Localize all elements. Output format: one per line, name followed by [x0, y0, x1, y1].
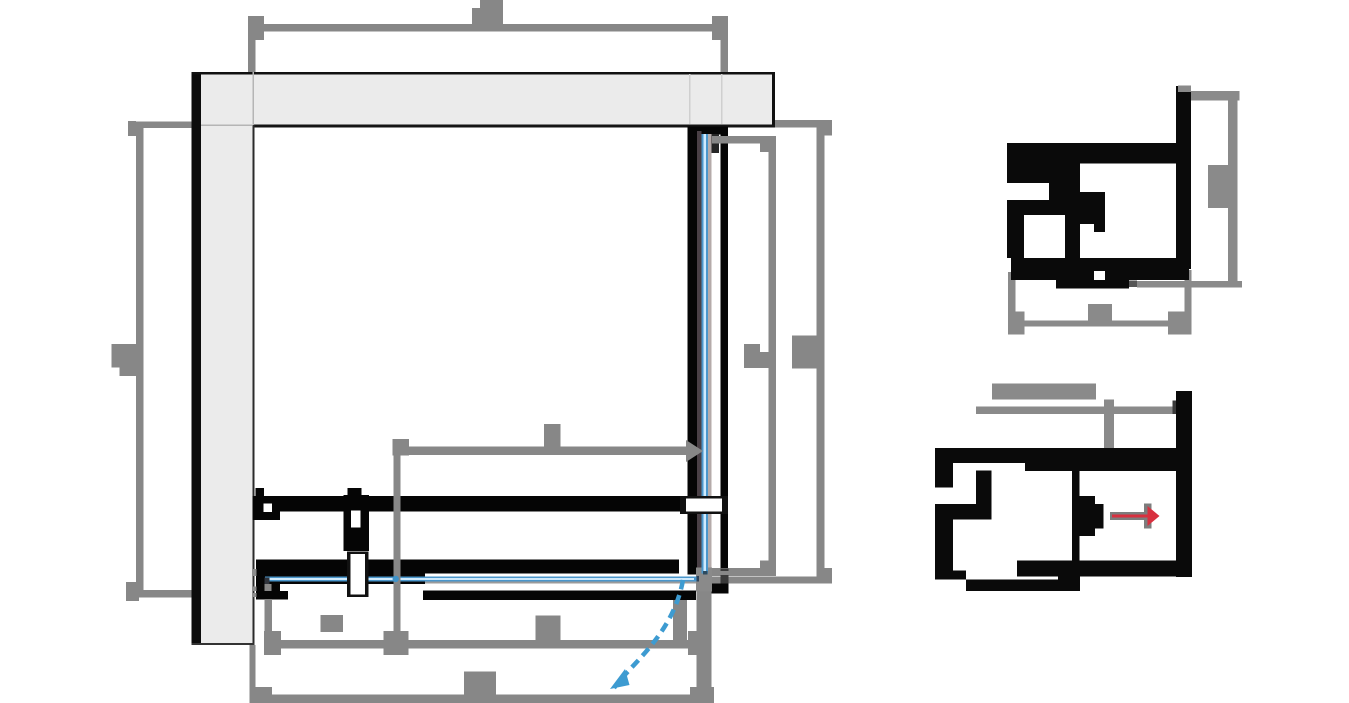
wall gray left column [201, 72, 253, 645]
inner dim tick top [760, 144, 770, 153]
bottom dim1 tick middle [384, 631, 409, 655]
outer dim extension bottom [712, 576, 832, 583]
detail2 profile divider bump 2 [1095, 504, 1104, 528]
detail1 profile bottom tab [1056, 280, 1129, 289]
vertical glass pane (blue) [702, 134, 708, 574]
bottom threshold bar [423, 591, 696, 601]
detail1 profile top band [1007, 143, 1176, 164]
center post top tab [348, 488, 362, 496]
bottom dim1 tick left [264, 631, 281, 655]
wall left column bottom edge [192, 643, 255, 645]
detail2 arrow gray tick [1144, 503, 1152, 528]
detail1 right dim line [1228, 100, 1237, 287]
left dim line [136, 125, 144, 595]
inner dim line [769, 144, 777, 569]
lower track: left bracket screw hole [263, 503, 272, 511]
right dims bottom extensions (over profiles) [712, 568, 832, 584]
door swing arc (dashed blue) [614, 580, 683, 688]
bottom right corner gray bracket blob [696, 568, 712, 592]
top dimension extension right [720, 39, 728, 72]
glass top bracket blob [697, 134, 719, 153]
wall right edge line [772, 72, 775, 127]
detail2 profile left column lower [935, 519, 953, 570]
inner dim extension top [712, 136, 776, 144]
gray hairline under glass [425, 582, 697, 584]
upper profile bar [280, 496, 681, 511]
lower profile bar [256, 560, 679, 574]
top dimension text blob [472, 0, 503, 24]
detail1 profile upper-left block [1007, 164, 1080, 184]
lower bar left end bracket [256, 560, 280, 600]
center post [344, 495, 370, 551]
detail1 profile right bump [1080, 192, 1105, 224]
detail2 profile divider bump 1 [1079, 496, 1095, 536]
top dimension tick right [712, 16, 728, 40]
wall interior left edge line [253, 125, 255, 646]
left dim extension top [128, 121, 201, 128]
detail1 profile middle column [1065, 215, 1080, 258]
detail1 bottom dim line [1025, 321, 1169, 327]
detail2 profile right bar [1176, 391, 1192, 577]
left dim tick bottom [126, 582, 139, 601]
bottom dim2 tick left [254, 687, 272, 703]
bottom dim1 line [265, 640, 710, 649]
bottom dim1 text blob right [536, 616, 561, 641]
door handle right (white block) [680, 496, 728, 514]
detail2 profile bottom band [1017, 560, 1176, 576]
interior dim arrowhead [686, 440, 703, 462]
detail2 dim line [976, 407, 1178, 415]
left dim text blob [112, 344, 137, 376]
detail1 gray tick above right bar [1178, 86, 1191, 93]
inner dim tick bottom [760, 561, 769, 569]
detail1 bottom dim text blob [1088, 304, 1112, 321]
dark mark at glass start [264, 577, 269, 583]
detail1 bottom dim right ext [1184, 270, 1191, 334]
bottom dim2 tick right [690, 687, 714, 703]
top dimension tick left [248, 0, 728, 72]
bottom dim2 extension right [696, 592, 711, 703]
wall interior top edge line [253, 125, 776, 128]
center post slot [351, 511, 361, 528]
bottom dim1 extension left upper [265, 584, 272, 591]
detail1 profile right bar [1176, 86, 1191, 269]
detail1 bottom dim tick left [1008, 312, 1025, 335]
top dimension extension left [248, 40, 256, 72]
detail2 arrow red shaft [1112, 514, 1148, 517]
detail2 profile left column upper [935, 448, 953, 487]
bottom dim2 line [252, 695, 712, 703]
glass marker at extension crossing [393, 576, 399, 582]
detail2 arrow red head [1148, 506, 1160, 526]
detail2 profile divider column [1072, 471, 1079, 561]
detail2 arrow gray shaft backing [1110, 512, 1152, 520]
glass profile top cap [688, 127, 729, 135]
detail2 dim right dark mark [1173, 401, 1185, 415]
door knob center (white block) [347, 552, 369, 598]
glass profile bar B (wall side) [720, 127, 728, 583]
horizontal glass end over blob [694, 576, 697, 581]
interior dim text blob [544, 424, 560, 447]
detail2 profile left foot [935, 571, 966, 580]
outer dim tick bottom [824, 568, 832, 577]
bottom dim1 extension left [265, 599, 272, 640]
right outer dimension [775, 120, 832, 577]
wall corner joint vertical line [252, 72, 254, 125]
door swing arrowhead [610, 669, 630, 689]
bottom dimensions [250, 584, 715, 703]
left dim tick top [128, 121, 136, 136]
bottom dim1 text blob left [321, 615, 344, 632]
interior dim extension line [394, 439, 401, 655]
glass profile bar A lower part [688, 512, 698, 575]
detail1 profile middle column top [1049, 183, 1080, 200]
detail1 dark gray joint bit [1129, 281, 1137, 288]
detail1 bottom dim tick right [1168, 312, 1184, 335]
bottom dim1 tick right [688, 631, 711, 655]
detail2 profile top band thick right [1025, 463, 1176, 471]
detail1 right dim extension top [1191, 91, 1239, 100]
left dim extension bottom [126, 590, 201, 598]
detail1 profile right bump step [1094, 224, 1105, 232]
wall black bar left [192, 72, 202, 645]
wall gray top band [201, 72, 772, 126]
detail2 profile bottom strip [966, 580, 1080, 592]
detail1 bottom band hole [1094, 271, 1105, 280]
lower bar left bracket flange [256, 591, 288, 599]
vertical glass end cap [703, 571, 708, 575]
lower track: left wall bracket top tab [255, 488, 264, 498]
detail2 profile cross piece [935, 504, 991, 519]
inner dim text blob [744, 344, 769, 368]
outer dim text blob [792, 336, 818, 369]
glass profile bar A (interior side) [688, 127, 698, 498]
interior dim tick left [393, 439, 409, 455]
detail2 profile hook tab [976, 471, 991, 520]
bottom dim1 extension right [673, 600, 687, 641]
interior width dimension [393, 424, 703, 655]
bottom right corner block [712, 584, 729, 594]
horizontal glass end cap [697, 576, 700, 581]
detail1 profile left column [1007, 200, 1024, 258]
left dimension [112, 121, 202, 601]
interior dim line [401, 447, 691, 456]
wall corner joint horizontal line [201, 124, 252, 126]
detail2 profile strip-band connector [1058, 571, 1080, 580]
detail2 profile top band [935, 448, 1176, 463]
outer dim tick top [824, 127, 832, 135]
detail1 profile bridge [1024, 200, 1080, 215]
bottom dim2 text blob [464, 672, 496, 695]
horizontal glass pane (blue) [265, 576, 699, 581]
bar B dark dashes through gray band [721, 568, 729, 571]
detail1 bottom dim left ext [1008, 272, 1016, 334]
detail2 label text blob [992, 384, 1096, 400]
top dimension line [264, 24, 712, 31]
detail2 dim middle extension [1104, 400, 1114, 449]
lower bar solid left section [278, 573, 425, 576]
faint extension through wall band [721, 74, 723, 124]
right inner dimension [712, 136, 776, 568]
outer dim extension top [775, 120, 832, 128]
detail1 profile bottom band [1011, 258, 1189, 280]
lower bar strip below glass [256, 581, 425, 584]
lower track: left wall bracket [253, 496, 281, 520]
bottom dim2 extension left [250, 645, 256, 703]
glass light shadow strip [708, 134, 712, 571]
vertical glass end over blob [702, 565, 704, 574]
detail1 right dim text blob [1208, 165, 1228, 208]
faint joint line in wall band above glass profile [689, 74, 691, 124]
hidden edge dashes at left bracket [253, 569, 257, 597]
wall top edge line [192, 72, 776, 75]
inner dim extension bottom [712, 568, 776, 576]
glass dark seal strip [697, 131, 701, 574]
detail1 right dim extension bottom [1137, 281, 1242, 288]
outer dim line [817, 127, 825, 577]
